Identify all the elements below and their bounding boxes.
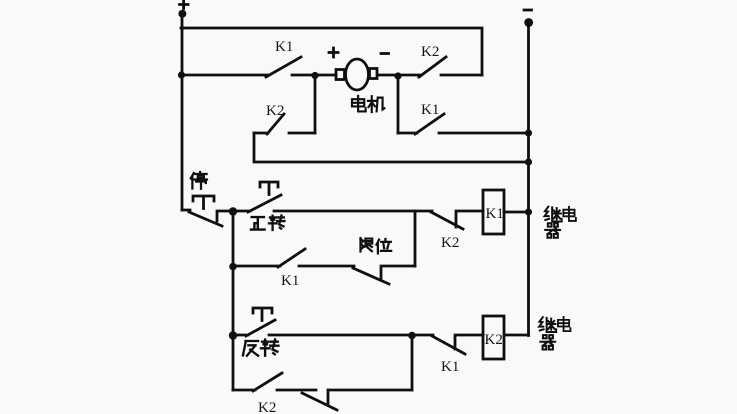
svg-text:K2: K2 (485, 332, 503, 348)
svg-text:K1: K1 (421, 102, 439, 118)
svg-text:K1: K1 (281, 273, 299, 289)
svg-text:K1: K1 (275, 39, 293, 55)
svg-text:K1: K1 (486, 206, 504, 222)
svg-text:K2: K2 (441, 235, 459, 251)
svg-text:K2: K2 (258, 400, 276, 414)
svg-text:K2: K2 (421, 44, 439, 60)
svg-text:K1: K1 (441, 359, 459, 375)
svg-text:K2: K2 (266, 103, 284, 119)
